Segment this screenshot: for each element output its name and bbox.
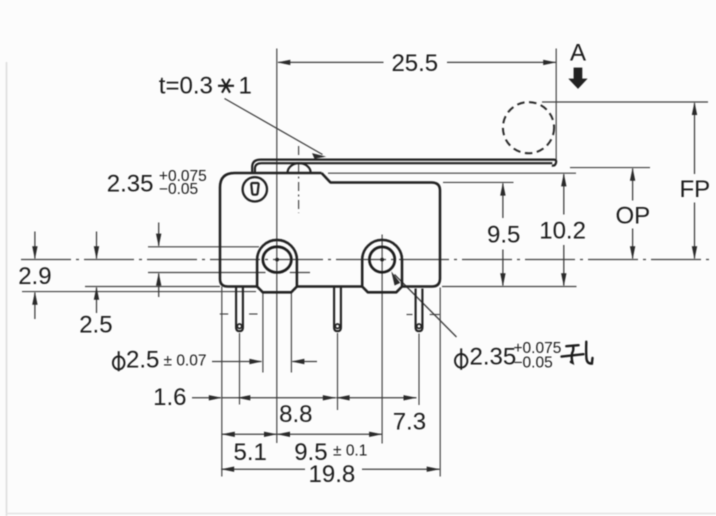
svg-text:9.5: 9.5: [487, 221, 520, 248]
svg-text:± 0.07: ± 0.07: [164, 352, 207, 369]
svg-text:2.5: 2.5: [79, 312, 112, 339]
svg-text:5.1: 5.1: [234, 439, 267, 466]
svg-text:A: A: [570, 40, 586, 67]
svg-text:2.9: 2.9: [18, 263, 51, 290]
svg-text:1.6: 1.6: [153, 384, 186, 411]
svg-text:−0.05: −0.05: [159, 181, 198, 198]
svg-text:8.8: 8.8: [279, 401, 312, 428]
svg-text:−0.05: −0.05: [514, 355, 553, 372]
svg-text:t=0.3: t=0.3: [159, 73, 213, 100]
svg-text:10.2: 10.2: [539, 217, 586, 244]
svg-text:2.5: 2.5: [126, 347, 159, 374]
svg-text:OP: OP: [615, 202, 650, 229]
svg-text:7.3: 7.3: [393, 409, 426, 436]
svg-text:2.35: 2.35: [470, 343, 517, 370]
svg-text:FP: FP: [679, 176, 710, 203]
svg-text:19.8: 19.8: [309, 461, 356, 488]
svg-text:1: 1: [239, 73, 252, 100]
svg-text:2.35: 2.35: [107, 171, 154, 198]
svg-text:± 0.1: ± 0.1: [333, 443, 367, 460]
svg-text:25.5: 25.5: [391, 50, 438, 77]
